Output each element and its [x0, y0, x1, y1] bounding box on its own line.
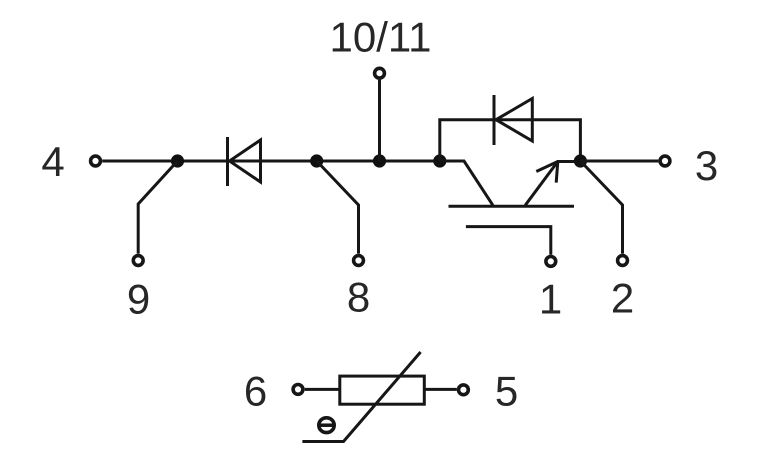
terminal 1 circle — [546, 257, 556, 267]
svg-text:3: 3 — [695, 142, 718, 189]
svg-text:6: 6 — [244, 368, 267, 415]
wire terminal 6 to thermistor R1 — [305, 388, 340, 391]
wire node A to terminal 9 — [138, 161, 177, 254]
transistor Q1 body bar — [449, 205, 575, 208]
wire node B to terminal 8 — [317, 161, 359, 254]
wire node C to terminal 10/11 — [378, 80, 381, 161]
svg-text:1: 1 — [539, 276, 562, 323]
svg-text:10/11: 10/11 — [330, 14, 432, 61]
terminal 10/11 circle — [375, 68, 385, 78]
svg-text:8: 8 — [347, 274, 370, 321]
diode D1 triangle — [230, 140, 261, 182]
terminal 4 circle — [91, 156, 101, 166]
node E junction — [574, 154, 587, 167]
terminal 5 circle — [459, 385, 469, 395]
theta symbol — [319, 418, 334, 433]
terminal 6 circle — [293, 385, 303, 395]
transistor Q1 collector wire — [440, 161, 493, 205]
thermistor R1 diagonal stroke — [302, 352, 420, 442]
wire main horizontal from terminal 4 through diode D1 to node D — [102, 160, 440, 163]
wire node E to terminal 3 — [580, 160, 658, 163]
terminal 8 circle — [354, 256, 364, 266]
terminal 3 circle — [660, 156, 670, 166]
node B junction — [310, 154, 323, 167]
svg-text:5: 5 — [495, 368, 518, 415]
node A junction — [171, 154, 184, 167]
svg-text:2: 2 — [611, 275, 634, 322]
diode D1 cathode bar — [226, 137, 229, 186]
transistor Q1 emitter wire with arrow — [525, 162, 580, 206]
wire thermistor R1 to terminal 5 — [424, 388, 457, 391]
diode D2 cathode bar — [493, 95, 496, 145]
thermistor R1 body rectangle — [340, 376, 425, 404]
svg-text:4: 4 — [41, 138, 64, 185]
node D junction — [433, 154, 446, 167]
svg-text:9: 9 — [127, 276, 150, 323]
node C junction — [373, 154, 386, 167]
diode D2 triangle — [496, 99, 532, 142]
transistor Q1 emitter arrowhead — [536, 162, 558, 172]
wire node E to terminal 2 — [580, 161, 622, 254]
transistor Q1 gate wire — [466, 227, 551, 255]
terminal 9 circle — [133, 256, 143, 266]
terminal 2 circle — [618, 256, 628, 266]
wire diode D2 loop — [440, 120, 581, 161]
